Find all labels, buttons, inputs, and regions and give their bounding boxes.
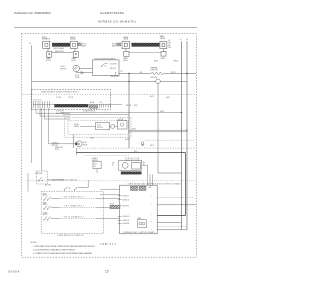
svg-text:ELEMENT: ELEMENT	[42, 39, 50, 41]
svg-text:OVEN RELAY AND SURFACE UNIT CO: OVEN RELAY AND SURFACE UNIT CONTROL BOAR…	[128, 183, 182, 186]
svg-text:GN: GN	[168, 47, 170, 49]
header rule	[14, 27, 197, 29]
svg-text:SW 5-6: SW 5-6	[43, 214, 48, 216]
svg-text:BU 18: BU 18	[150, 96, 154, 98]
wire drop 3	[151, 174, 153, 185]
relay board top connector hatch 1	[131, 186, 138, 190]
svg-text:P5 CN: P5 CN	[69, 97, 73, 99]
transformer T1	[138, 220, 146, 228]
electronic oven control box EOC	[31, 89, 110, 109]
svg-text:MOTOR: MOTOR	[118, 119, 123, 121]
svg-text:18: 18	[112, 164, 114, 166]
interlock contact 1	[65, 187, 68, 190]
relay board top connector hatch 2	[139, 186, 146, 190]
svg-text:RD 10: RD 10	[112, 43, 116, 45]
EOC pin ticks left	[33, 101, 50, 108]
svg-text:MOTOR: MOTOR	[60, 68, 67, 70]
svg-text:P3 CN: P3 CN	[57, 97, 61, 99]
svg-text:3. CONNECT SUPPLY LEADS AS SHO: 3. CONNECT SUPPLY LEADS AS SHOWN ON THE …	[33, 252, 93, 255]
wire to door motor M	[49, 143, 77, 145]
svg-text:BK: BK	[168, 40, 170, 42]
svg-text:P6 CN GN 18 WH 18: P6 CN GN 18 WH 18	[83, 110, 96, 112]
svg-text:NC: NC	[69, 188, 71, 190]
svg-text:GN 18: GN 18	[150, 145, 154, 147]
relay board right wire dashed 4	[157, 225, 187, 227]
svg-text:P2 CN: P2 CN	[110, 204, 114, 206]
bake element terminal block left	[122, 41, 129, 48]
lamp symbol in latch	[111, 124, 115, 128]
svg-text:BK 18: BK 18	[134, 105, 138, 107]
svg-text:WH 18: WH 18	[160, 111, 164, 113]
svg-text:JGB/T7J: JGB/T7J	[100, 242, 116, 246]
bake lower terminal right	[162, 49, 164, 52]
junction x129	[128, 73, 129, 74]
door lock assembly dashed box outer	[65, 118, 132, 138]
svg-text:FUSE TCO: FUSE TCO	[150, 69, 158, 71]
dashed separator at 180	[26, 180, 90, 182]
svg-text:GLEB30T8ABA: GLEB30T8ABA	[100, 11, 125, 15]
motor MDL	[73, 65, 79, 71]
wire relay box drop	[96, 169, 98, 173]
wire latch to N bus row 1	[130, 129, 187, 131]
convection capacitor block	[132, 162, 141, 169]
wires into relay board top-left	[100, 188, 120, 190]
EOC solid left edge	[30, 89, 32, 109]
wire motor to lock switch box	[79, 67, 92, 69]
svg-text:CN5 BU 18: CN5 BU 18	[122, 220, 129, 222]
svg-text:BROIL 3400W: BROIL 3400W	[54, 48, 65, 50]
svg-text:1 2 3 4 5 6 7 8: 1 2 3 4 5 6 7 8	[33, 100, 42, 102]
wire neutral row	[32, 81, 156, 83]
door switch contact	[38, 180, 39, 181]
junction N bus	[186, 73, 187, 74]
wire latch internal 1	[80, 125, 96, 127]
svg-text:1. DISCONNECT ELECTRICAL POWER: 1. DISCONNECT ELECTRICAL POWER SUPPLY BE…	[33, 245, 96, 248]
svg-text:BK 18: BK 18	[154, 60, 158, 62]
svg-text:OVEN LT: OVEN LT	[92, 158, 98, 160]
wire left long vertical	[30, 110, 32, 163]
wire N vertical bus	[186, 41, 188, 230]
svg-text:WH 18: WH 18	[174, 60, 179, 62]
svg-text:BLK N: BLK N	[72, 60, 76, 62]
oven light relay box	[93, 161, 101, 168]
motor M terminal	[75, 142, 77, 145]
selector switch 3	[44, 217, 47, 220]
svg-text:CN2 RD 14: CN2 RD 14	[122, 199, 129, 201]
svg-text:UNLOCK: UNLOCK	[110, 68, 116, 70]
convection fan box	[119, 160, 142, 170]
wire drop 1	[147, 165, 149, 185]
svg-text:BK 18 WH 18: BK 18 WH 18	[56, 113, 64, 115]
wire left feed vertical	[31, 45, 33, 89]
svg-text:CN6 GN 18: CN6 GN 18	[122, 223, 129, 225]
wire EOC pin 2 down	[39, 108, 41, 116]
svg-text:WH 18: WH 18	[83, 144, 88, 146]
interlock contact 2	[75, 187, 78, 190]
door switch dashed box	[37, 171, 48, 184]
svg-text:SEE NOTE 1: SEE NOTE 1	[111, 76, 120, 78]
svg-text:CONVECTION: CONVECTION	[125, 158, 139, 160]
relay control board box	[120, 185, 158, 234]
wire L1 row to thermal fuse	[119, 72, 151, 74]
wire selector row 1	[51, 197, 60, 199]
bake element heating bar	[132, 43, 160, 47]
wire EOC to lock motor M	[48, 108, 50, 144]
svg-text:BK: BK	[140, 72, 142, 74]
wire drop 2	[149, 174, 151, 185]
relay board right wire 5	[157, 229, 187, 231]
svg-text:CN1 BK 14: CN1 BK 14	[122, 196, 129, 198]
svg-text:M: M	[78, 142, 80, 146]
separator left drop	[75, 148, 77, 155]
svg-text:BU 18: BU 18	[83, 142, 87, 144]
EOC connector P4 hatch	[89, 105, 98, 108]
wire latch internal 2	[110, 125, 111, 127]
wire dark to relay board	[157, 214, 185, 216]
svg-text:RLY: RLY	[94, 163, 97, 165]
broil element terminal block right	[70, 41, 77, 48]
diode D1	[75, 72, 77, 73]
dashed console-oven separator lower	[90, 180, 196, 182]
junction ribbon row	[181, 112, 182, 113]
wire L1 dark row	[76, 152, 185, 154]
svg-text:L1: L1	[180, 39, 182, 41]
svg-text:BK 18: BK 18	[55, 149, 59, 151]
dashed oven separator	[76, 147, 196, 149]
svg-text:BLK L2: BLK L2	[123, 60, 128, 62]
svg-text:P11 CN: P11 CN	[126, 105, 131, 107]
svg-text:DOOR LOCK MOTOR & SWITCH: DOOR LOCK MOTOR & SWITCH	[95, 58, 117, 60]
svg-text:3400W: 3400W	[70, 39, 76, 41]
svg-text:NO COM: NO COM	[45, 185, 52, 187]
broil right wire stub	[78, 43, 81, 46]
svg-text:ELECTRONIC OVEN CONTROL (EOC): ELECTRONIC OVEN CONTROL (EOC)	[42, 92, 79, 94]
svg-text:OVEN SELECTOR SWITCH: OVEN SELECTOR SWITCH	[57, 235, 84, 237]
wire convection to drops	[142, 164, 148, 166]
svg-text:MOTOR: MOTOR	[52, 145, 58, 147]
lower terminal square left	[47, 52, 52, 58]
svg-text:5995A: 5995A	[8, 269, 20, 273]
svg-text:2850W: 2850W	[160, 38, 166, 40]
svg-text:Publication No. 5995410501: Publication No. 5995410501	[14, 11, 51, 15]
wire latch to N bus row 2	[130, 131, 187, 133]
svg-text:DOOR SW: DOOR SW	[35, 173, 43, 175]
wire EOC pin long down	[41, 108, 43, 171]
selector switch 2	[44, 206, 47, 209]
svg-text:LOCK: LOCK	[97, 125, 101, 127]
svg-text:WH 18: WH 18	[166, 97, 170, 99]
svg-text:RD 14 BROIL RD 14: RD 14 BROIL RD 14	[65, 197, 84, 199]
oven selector switch dashed box	[41, 192, 103, 234]
latch motor block	[118, 121, 128, 130]
wire EOC pin 3 down	[44, 108, 46, 119]
door lock motor switch box	[92, 60, 119, 76]
relay board right wire 3	[157, 222, 181, 224]
wire ribbon row 1	[61, 112, 182, 114]
svg-text:NO: NO	[121, 71, 123, 73]
svg-text:NOTE:: NOTE:	[31, 242, 38, 244]
door lock assembly dashed box inner	[68, 120, 128, 134]
relay board pin ticks left	[118, 196, 122, 224]
EOC bottom edge wire	[33, 103, 55, 105]
wire lock box stub	[115, 72, 117, 75]
svg-text:OR: OR	[112, 162, 114, 164]
convection connector hatch bar	[121, 172, 141, 175]
dashed stub row	[85, 154, 129, 156]
svg-text:CN3 OR 14: CN3 OR 14	[122, 205, 129, 207]
wire left stub vertical	[27, 173, 29, 192]
broil element terminal block left	[43, 41, 50, 48]
wire terminal to lower block right	[74, 48, 76, 51]
dashed console separator	[22, 93, 196, 95]
buzzer B1	[156, 79, 161, 84]
svg-text:SEE NOTE 2: SEE NOTE 2	[55, 147, 63, 149]
wire latch box drop	[73, 135, 75, 149]
wire latch internal 3	[115, 125, 118, 127]
junction latch N rows	[186, 130, 187, 131]
svg-text:DOOR LK: DOOR LK	[52, 143, 59, 145]
svg-text:SEE NOTE 3: SEE NOTE 3	[55, 51, 64, 53]
broil element heating bar	[52, 43, 70, 47]
svg-text:WH 18: WH 18	[75, 77, 79, 79]
motor M	[76, 141, 82, 147]
svg-text:W/RB45.SC-W(M&TK): W/RB45.SC-W(M&TK)	[98, 20, 136, 24]
relay board left hatch connector	[110, 205, 120, 209]
wire buzzer drop	[157, 84, 159, 173]
wire bus x129 vertical	[128, 73, 130, 148]
wire ribbon row 2	[63, 113, 129, 115]
wire L1 vertical bus	[181, 41, 183, 230]
svg-text:XFMR: XFMR	[137, 218, 141, 220]
svg-text:15: 15	[105, 269, 109, 273]
dashed wire to border	[145, 139, 195, 141]
svg-text:ELEM: ELEM	[124, 39, 129, 41]
bake lower terminal left	[125, 49, 127, 52]
frame dashed border	[22, 34, 197, 258]
svg-text:2. DOOR SHOWN IN CLOSED AND LO: 2. DOOR SHOWN IN CLOSED AND LOCKED POSIT…	[33, 249, 76, 252]
ground symbol	[141, 142, 144, 145]
wire drop x88	[87, 180, 89, 187]
wire between lower terminals	[52, 52, 73, 54]
relay board right wire solid	[157, 204, 196, 206]
svg-text:BU: BU	[143, 162, 145, 164]
EOC pin ticks right	[99, 104, 110, 108]
wire interlock to right	[78, 186, 88, 188]
bake element terminal block right	[160, 41, 167, 48]
svg-text:CN4 WH 14: CN4 WH 14	[122, 216, 129, 218]
wire selector row 3	[51, 217, 60, 219]
EOC ribbon connector strip	[55, 104, 89, 107]
convection fan motor circle	[122, 163, 128, 169]
svg-text:SWITCH: SWITCH	[92, 160, 98, 162]
lower terminal square right	[73, 52, 78, 58]
svg-text:K1 K2 K3 K4: K1 K2 K3 K4	[56, 110, 64, 112]
svg-text:OR 18: OR 18	[90, 137, 94, 139]
svg-text:K5: K5	[94, 166, 96, 168]
svg-text:BLK L1: BLK L1	[46, 60, 51, 62]
svg-text:RD 10: RD 10	[82, 43, 86, 45]
wire selector row 2	[51, 206, 60, 208]
svg-text:WH 18: WH 18	[125, 139, 129, 141]
wire between bake lower terminals	[129, 52, 161, 54]
lock switch contact	[102, 63, 105, 66]
svg-text:CN8: CN8	[149, 187, 152, 189]
svg-text:SWITCH: SWITCH	[97, 127, 103, 129]
thermal fuse TCO zigzag	[151, 72, 164, 75]
selector switch 1	[44, 197, 47, 200]
wire door switch row	[48, 179, 65, 181]
junction buzzer row	[128, 81, 129, 82]
svg-text:OR 18: OR 18	[171, 72, 176, 74]
wire terminal to lower block left	[47, 48, 49, 51]
svg-text:WH: WH	[168, 42, 171, 44]
lock switch block	[96, 122, 110, 129]
wire L1 dark drop	[185, 153, 187, 216]
svg-text:P1 CN: P1 CN	[75, 75, 79, 77]
wire EOC pin 1 down	[35, 108, 37, 113]
relay board right wire dashed 1	[157, 196, 193, 198]
svg-text:LOCK SW: LOCK SW	[110, 64, 118, 66]
